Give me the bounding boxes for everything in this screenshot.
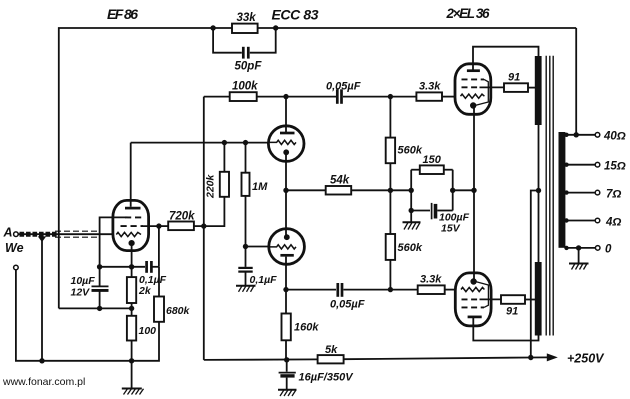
svg-text:7Ω: 7Ω <box>606 189 621 201</box>
wire 54k line right <box>351 189 411 191</box>
svg-text:10µF: 10µF <box>71 275 96 287</box>
wire EF86 anode to ECC83 grid <box>131 142 269 144</box>
node B on cathode line <box>450 188 455 193</box>
resistor 3.3k top <box>416 81 442 101</box>
svg-text:91: 91 <box>508 72 520 84</box>
EL36 top g3 dashes <box>462 78 485 80</box>
node cathode lead <box>129 264 134 269</box>
EL36 bottom g3 dashes <box>462 306 485 308</box>
wire B to EL36 cathodes <box>453 189 474 191</box>
node anode line/220k <box>222 140 227 145</box>
node 33k left <box>210 25 215 30</box>
wire center tap to +250V <box>531 191 539 358</box>
wire EF86 cathode down <box>131 244 133 277</box>
svg-text:2×EL 36: 2×EL 36 <box>446 6 490 21</box>
wire tap 7ohm <box>565 192 595 194</box>
transformer primary winding top <box>535 56 542 125</box>
wire ground stub main <box>131 361 133 389</box>
svg-text:3.3k: 3.3k <box>420 274 442 286</box>
wire feedback to cathode node <box>59 307 132 309</box>
svg-text:We: We <box>5 241 24 255</box>
wire cap to grid node <box>343 96 416 98</box>
node 10uF bottom feedback <box>97 306 102 311</box>
transformer primary winding bottom <box>535 262 542 336</box>
capacitor 10uF <box>71 267 109 309</box>
node anode line/1M <box>243 140 248 145</box>
wire +250V rail <box>344 357 548 359</box>
resistor 91 top <box>504 72 528 92</box>
svg-text:0,05µF: 0,05µF <box>326 81 361 93</box>
node primary center tap <box>536 188 541 193</box>
wire 220k top <box>223 143 225 172</box>
T2 anode bar <box>280 254 293 257</box>
svg-text:1M: 1M <box>252 181 268 193</box>
node 2k/100 feedback <box>129 306 134 311</box>
svg-text:150: 150 <box>423 154 442 166</box>
T1 cathode dot <box>283 149 289 155</box>
wire tap 4ohm <box>565 220 595 222</box>
svg-text:40Ω: 40Ω <box>603 131 626 143</box>
node primary CT/+250V <box>528 355 533 360</box>
shielded input cable shield dashes <box>55 231 101 237</box>
wire g2 lead to node <box>143 226 159 267</box>
wire 100 to ground rail <box>131 341 133 361</box>
terminal We <box>14 265 19 270</box>
EL36 bottom g1 zigzag <box>461 287 484 291</box>
wire EL36 bottom screen lead <box>480 298 502 300</box>
capacitor 0.05uF top <box>326 81 361 104</box>
node EL36 bottom grid <box>388 287 393 292</box>
tube ECC83 triode T2 <box>269 229 305 265</box>
svg-text:3.3k: 3.3k <box>419 81 441 93</box>
node 160k/16uF <box>284 357 289 362</box>
capacitor 0.05uF bottom <box>330 283 365 311</box>
svg-text:ECC 83: ECC 83 <box>272 7 319 23</box>
resistor 2k <box>127 277 136 303</box>
T1 anode bar <box>280 132 295 135</box>
wire top feedback rail left segment <box>59 28 232 308</box>
wire 3.3k to EL36 grid <box>442 96 456 98</box>
tube ECC83 triode T1 <box>268 126 304 162</box>
resistor 560k bottom <box>386 234 423 260</box>
wire top rail right segment <box>258 27 577 29</box>
resistor 220k <box>205 172 230 199</box>
ground 16uF <box>278 390 297 396</box>
shield ground tap triangle <box>38 236 46 242</box>
wire EL36 top screen lead <box>480 86 505 88</box>
node cathode string/ground rail <box>129 358 134 363</box>
svg-text:5k: 5k <box>325 344 338 356</box>
ground main <box>122 389 144 395</box>
wire tap 40ohm <box>565 134 595 136</box>
tube EL36 top envelope <box>455 64 491 115</box>
wire 100k to cap <box>257 96 336 98</box>
wire 100k line <box>204 96 230 98</box>
wire node B vertical <box>452 170 454 211</box>
resistor 100 <box>127 316 156 341</box>
wire 560k bottom lead <box>389 260 391 290</box>
wire T2 grid line <box>246 246 269 248</box>
wire T1 anode up <box>285 97 287 132</box>
wire T2 cathode up <box>285 190 287 235</box>
resistor 720k <box>168 211 195 231</box>
wire node A vertical <box>410 170 412 211</box>
node T2 anode/160k <box>283 287 288 292</box>
resistor 150 <box>420 154 444 174</box>
terminal A <box>3 226 19 240</box>
wire feedback right vertical <box>575 28 577 135</box>
wire 560k top leads <box>389 97 391 138</box>
resistor 33k <box>232 12 258 33</box>
wire tap 15ohm <box>565 164 595 166</box>
terminal 7ohm <box>595 189 621 201</box>
wire 0 tap ground stub <box>578 248 580 264</box>
resistor 91 bottom <box>501 295 525 317</box>
svg-text:100: 100 <box>139 325 157 337</box>
capacitor 0.1uF grid2 <box>238 247 277 286</box>
svg-text:160k: 160k <box>294 322 319 334</box>
svg-text:0: 0 <box>605 244 612 256</box>
resistor 3.3k bottom <box>418 274 445 295</box>
wire 1M bottom <box>245 196 247 247</box>
svg-text:15V: 15V <box>441 223 461 235</box>
node 560k mid <box>388 188 393 193</box>
EL36 top g2 dashes <box>462 86 481 88</box>
EL36 top g3-cathode link <box>476 79 489 105</box>
node cathode/g3 <box>97 264 102 269</box>
node LTP cathodes <box>283 188 288 193</box>
node B+/720k/220k <box>201 223 206 228</box>
EF86 grid g3 dashes <box>125 216 143 218</box>
capacitor 16uF/350V <box>279 360 355 390</box>
node feedback tap <box>574 132 579 137</box>
resistor 54k <box>326 175 352 195</box>
svg-text:50pF: 50pF <box>235 61 263 73</box>
EL36 top g1 zigzag <box>461 94 485 98</box>
svg-text:12V: 12V <box>71 287 91 299</box>
wire shield to ground rail <box>41 240 43 361</box>
wire cap to bottom grid node <box>344 289 418 291</box>
svg-text:A: A <box>3 226 13 240</box>
EL36 bottom g2 dashes <box>462 298 481 300</box>
node cathode-net ground A <box>409 188 414 193</box>
EL36 top anode bar <box>467 69 480 72</box>
svg-text:220k: 220k <box>205 173 217 199</box>
resistor 680k <box>154 297 191 322</box>
svg-text:2k: 2k <box>138 285 152 297</box>
capacitor 0.1uF screen <box>139 261 167 286</box>
svg-text:54k: 54k <box>330 175 350 187</box>
svg-text:EF 86: EF 86 <box>107 6 138 22</box>
wire EL36 top cathode down <box>473 107 475 190</box>
wire g3 lead to cathode <box>100 217 126 266</box>
EF86 grid g1 zigzag <box>116 232 141 236</box>
EL36 top cathode dot <box>470 102 476 108</box>
terminal 4ohm <box>595 217 621 229</box>
wire 720k leads <box>159 225 168 227</box>
wire EL36 bottom anode to primary <box>473 317 538 341</box>
EF86 grid g2 dashes <box>121 225 144 227</box>
wire 1M top <box>245 143 247 173</box>
node 100uF ground <box>409 208 414 213</box>
svg-text:+250V: +250V <box>567 352 605 366</box>
tube EL36 bottom envelope <box>455 273 491 326</box>
T1 grid zigzag <box>269 140 296 144</box>
terminal 15ohm <box>595 161 626 173</box>
transformer core lines <box>546 56 553 336</box>
wire 150 leads <box>411 169 420 171</box>
wire 54k line left <box>286 189 326 191</box>
wire B+ vertical <box>203 97 205 360</box>
svg-text:100k: 100k <box>232 81 258 93</box>
capacitor 50pF <box>235 47 263 73</box>
svg-text:560k: 560k <box>398 145 423 157</box>
EF86 anode bar <box>125 207 141 210</box>
wire ground stub bias <box>410 211 412 223</box>
svg-text:www.fonar.com.pl: www.fonar.com.pl <box>2 376 85 388</box>
node shield/ground rail <box>39 358 44 363</box>
T2 grid zigzag <box>269 245 296 249</box>
svg-text:720k: 720k <box>169 211 195 223</box>
resistor 160k <box>282 314 320 341</box>
wire T1 cathode down <box>285 154 287 190</box>
shielded input cable core <box>18 233 113 235</box>
node EL36 top grid <box>388 94 393 99</box>
node g2/720k <box>156 223 161 228</box>
node T1 anode <box>283 94 288 99</box>
transformer secondary winding <box>559 132 566 248</box>
resistor 1M <box>242 173 269 196</box>
node EL36 cathode line <box>471 188 476 193</box>
wire EF86 anode up <box>130 143 132 207</box>
EL36 bottom cathode dot <box>470 278 476 284</box>
ground 0.1uF <box>236 286 256 292</box>
T2 cathode dot <box>284 234 290 240</box>
EF86 cathode dot <box>129 240 135 246</box>
shielded input cable braid <box>20 232 58 237</box>
node 0 tap ground <box>576 245 581 250</box>
wire 160k leads <box>285 290 287 314</box>
+250V arrow <box>547 353 558 361</box>
tube EF86 envelope <box>113 200 149 250</box>
node 33k right <box>273 25 278 30</box>
wire cathode horizontal <box>100 266 145 268</box>
svg-text:33k: 33k <box>237 12 257 24</box>
wire 680k top <box>158 267 160 297</box>
wire tap 0 <box>565 247 596 249</box>
resistor 100k <box>230 81 258 102</box>
capacitor 100uF/15V <box>411 203 469 235</box>
ground secondary <box>569 264 589 270</box>
svg-text:91: 91 <box>506 306 518 318</box>
svg-text:15Ω: 15Ω <box>604 161 626 173</box>
wire primary link <box>538 125 540 262</box>
wire 2k to 100 <box>131 303 133 316</box>
wire 3.3k to EL36 bottom grid <box>445 289 456 291</box>
terminal 0 <box>595 244 612 256</box>
EL36 bottom g3-cathode link <box>476 282 488 308</box>
wire 50pF branch <box>213 28 242 53</box>
resistor 560k top <box>386 138 423 164</box>
node T2 grid/1M <box>243 244 248 249</box>
wire EL36 bottom cathode up <box>473 190 475 279</box>
svg-text:0,05µF: 0,05µF <box>330 299 365 311</box>
wire EL36 top anode to primary <box>473 47 539 71</box>
wire T2 coupling line <box>286 289 336 291</box>
EL36 bottom anode bar <box>468 316 482 319</box>
terminal 40ohm <box>595 131 626 143</box>
wire 220k bottom L <box>204 197 225 226</box>
wire We to ground rail <box>16 270 159 361</box>
svg-text:16µF/350V: 16µF/350V <box>299 371 355 383</box>
wire T2 anode down <box>285 257 287 290</box>
wire B+ filtered rail <box>204 358 317 361</box>
ground bias network <box>403 222 421 229</box>
svg-text:560k: 560k <box>398 242 423 254</box>
wire 91 bottom to primary <box>525 299 536 301</box>
svg-text:680k: 680k <box>166 305 191 317</box>
resistor 5k <box>318 344 344 364</box>
svg-text:0,1µF: 0,1µF <box>250 274 278 286</box>
svg-text:4Ω: 4Ω <box>605 217 621 229</box>
wire 91 top to primary <box>528 87 536 89</box>
